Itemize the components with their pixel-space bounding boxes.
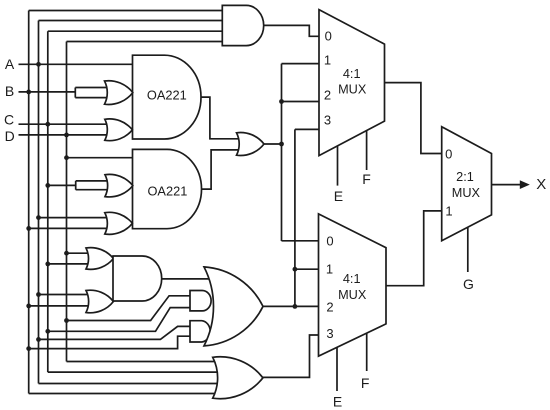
junction rail3-OR6	[45, 262, 50, 267]
AND gate top (4-input)	[222, 5, 263, 45]
svg-text:MUX: MUX	[338, 288, 367, 302]
or-gate OR3 (C) of U2	[105, 174, 133, 197]
wire to MUX2 input 1	[295, 268, 319, 270]
svg-text:4:1: 4:1	[343, 272, 361, 286]
junction B-rail1	[26, 90, 31, 95]
or-gate OR2 (C,D) of U1	[105, 119, 133, 141]
wire node rail x295	[294, 129, 296, 306]
junction rail4-AND3	[64, 318, 69, 323]
wire rail4 (D bus)	[66, 42, 68, 362]
AND gate AND4 (A,B)	[190, 321, 210, 342]
svg-text:B: B	[5, 83, 14, 99]
wire U3 select E	[337, 146, 339, 186]
AND gate AND3 (C,D)	[190, 291, 211, 311]
junction C-rail3	[45, 122, 50, 127]
wire U3 output to U5 input 0	[385, 83, 442, 154]
mux U3 4:1 MUX	[319, 10, 385, 156]
arrowhead output X	[520, 180, 530, 189]
wire to MUX1 input 2	[282, 101, 320, 103]
junction rail1-OR7	[26, 304, 31, 309]
svg-text:X: X	[536, 176, 546, 193]
svg-text:2:1: 2:1	[456, 170, 474, 184]
junction rail1-AND4	[26, 346, 31, 351]
svg-text:A: A	[5, 56, 15, 72]
wire tied pair into OR1	[75, 88, 110, 98]
wire rail2 (A bus)	[38, 21, 40, 384]
wire OR11 output to MUX2 input 3	[263, 335, 319, 377]
svg-text:1: 1	[324, 52, 331, 67]
wire top AND input 3 from rail3	[48, 30, 223, 32]
svg-text:F: F	[361, 375, 370, 391]
junction rail1-OR4	[26, 226, 31, 231]
junction OR5 output node	[279, 142, 284, 147]
svg-text:MUX: MUX	[452, 186, 481, 200]
or-gate OR7 (A,B)	[86, 290, 113, 313]
wire rail4 to OR6 input	[67, 252, 91, 254]
junction rail3-OR3	[45, 183, 50, 188]
wire rail1 to OR4 input	[29, 227, 109, 229]
wire U5 select G	[467, 228, 469, 273]
wire rail3 (C bus)	[47, 31, 49, 372]
AND gate AND2 (OR6,OR7)	[113, 256, 162, 301]
wire OR5 output to node rail	[264, 143, 282, 145]
wire rail3 to OR11 input	[48, 371, 218, 373]
wire top AND input 2 from rail2	[39, 20, 223, 22]
junction rail4-OR6	[64, 251, 69, 256]
junction A-rail2	[36, 62, 41, 67]
or-gate OR6 (C,D)	[86, 248, 113, 270]
wire input D	[19, 134, 113, 136]
wire top AND output to MUX1 input 0	[264, 25, 319, 36]
wire OA221 U1 output to OR5	[201, 97, 239, 139]
svg-text:E: E	[333, 394, 342, 410]
wire U5 output X	[492, 184, 521, 186]
junction rail4-U2top	[64, 155, 69, 160]
svg-text:OA221: OA221	[147, 183, 187, 198]
junction rail2-OR7	[36, 292, 41, 297]
op OA221 U2 body	[133, 149, 202, 228]
wire rail3 feed to tied pair of OR3	[48, 184, 76, 186]
wire rail4 to AND3 route	[67, 296, 192, 321]
svg-text:OA221: OA221	[147, 88, 187, 103]
wire to MUX2 input 0	[282, 240, 319, 242]
svg-text:1: 1	[445, 204, 452, 219]
wire AND2 output to OR10	[162, 278, 209, 280]
svg-text:3: 3	[326, 326, 333, 341]
mux U4 4:1 MUX	[319, 214, 387, 356]
svg-text:0: 0	[325, 29, 332, 44]
junction node rail x295 to MUX2 in1	[293, 267, 298, 272]
or-gate OR10 (3-input)	[204, 267, 263, 346]
wire U4 select F	[366, 333, 368, 371]
wire rail2 to AND4 route	[39, 326, 191, 339]
svg-text:4:1: 4:1	[343, 67, 361, 81]
wire rail2 to OR11 input	[39, 383, 219, 385]
wire rail1 to OR7 input	[29, 305, 90, 307]
wire OR10 output to MUX2 input 2	[263, 305, 319, 307]
wire input B	[19, 91, 76, 93]
or-gate OR4 (A,B) of U2	[105, 212, 133, 234]
wire rail1 to AND4 route	[29, 336, 190, 348]
wire to MUX1 input 1	[282, 63, 320, 65]
junction D-rail4	[64, 133, 69, 138]
wire top AND input 1 from rail1	[29, 10, 223, 12]
wire U3 select F	[366, 131, 368, 170]
wire rail1 to OR11 input	[29, 393, 218, 395]
wire rail3 to OR6 input	[48, 263, 90, 265]
wire rail4 to U2 top input	[67, 157, 133, 159]
wire to MUX1 input 3	[295, 128, 319, 130]
svg-text:3: 3	[324, 113, 331, 128]
svg-text:2: 2	[326, 299, 333, 314]
or-gate OR1 (B) of U1	[105, 81, 133, 105]
svg-text:MUX: MUX	[338, 83, 367, 97]
svg-text:D: D	[5, 128, 15, 144]
svg-text:0: 0	[326, 233, 333, 248]
svg-text:E: E	[334, 188, 343, 204]
svg-text:1: 1	[326, 262, 333, 277]
or-gate OR5 (U1+U2)	[237, 133, 265, 156]
svg-text:C: C	[4, 111, 14, 127]
mux U5 2:1 MUX	[442, 127, 492, 241]
wire rail3 to AND3 route	[48, 308, 191, 332]
wire U4 output to U5 input 1	[386, 211, 442, 286]
wire rail2 to OR4 input	[39, 217, 110, 219]
wire tied pair into OR3	[76, 181, 110, 190]
junction OR10 output node	[293, 304, 298, 309]
wire input C	[19, 123, 113, 125]
junction rail2-AND4	[36, 337, 41, 342]
wire U4 select E	[336, 347, 338, 391]
junction rail3-AND3	[45, 329, 50, 334]
wire input A	[19, 63, 133, 65]
wire top AND input 4 from rail4	[67, 41, 223, 43]
wire rail2 to OR7 input	[39, 294, 91, 296]
junction node rail x281 to MUX1 in2	[279, 99, 284, 104]
junction rail2-OR4	[36, 215, 41, 220]
wire rail4 to OR11 input	[67, 361, 219, 363]
svg-text:G: G	[463, 276, 474, 292]
wire OA221 U2 output to OR5	[202, 150, 240, 189]
or-gate OR11 (4-input)	[213, 357, 263, 399]
op OA221 U1 body	[133, 55, 202, 139]
wire rail1 (B bus)	[28, 11, 30, 394]
svg-text:F: F	[362, 171, 371, 187]
wire node rail x281	[281, 64, 283, 241]
svg-text:0: 0	[445, 146, 452, 161]
svg-text:2: 2	[324, 87, 331, 102]
